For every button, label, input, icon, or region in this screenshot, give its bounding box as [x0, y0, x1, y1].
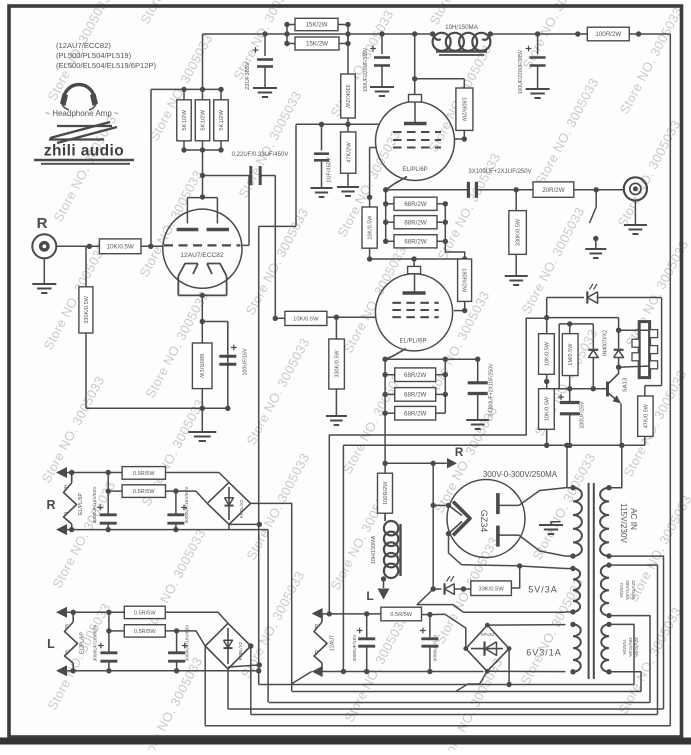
- svg-text:F: F: [64, 513, 68, 519]
- svg-text:(PL500/PL504/PL519): (PL500/PL504/PL519): [56, 51, 132, 60]
- svg-text:10K/0.5W: 10K/0.5W: [544, 341, 550, 366]
- svg-text:68R/2W: 68R/2W: [404, 219, 427, 226]
- svg-text:10K/0.5W: 10K/0.5W: [368, 215, 374, 240]
- svg-text:KPBL/X2: KPBL/X2: [239, 499, 244, 518]
- svg-text:F: F: [65, 625, 69, 631]
- svg-text:3000UF/16V: 3000UF/16V: [352, 634, 358, 662]
- svg-text:22UF385V: 22UF385V: [245, 62, 251, 90]
- svg-text:F: F: [315, 625, 319, 631]
- svg-text:68R/2W: 68R/2W: [404, 239, 427, 246]
- svg-text:3000UF/16V/63V: 3000UF/16V/63V: [184, 486, 190, 524]
- svg-text:68R/2W: 68R/2W: [404, 392, 427, 399]
- svg-text:12AU7: 12AU7: [330, 635, 336, 651]
- svg-text:100UF/220UF/385V: 100UF/220UF/385V: [518, 49, 524, 94]
- svg-text:EL/PL/6P: EL/PL/6P: [402, 167, 427, 173]
- svg-text:330K/0.5W: 330K/0.5W: [84, 295, 90, 323]
- svg-text:3000UF/16V/63V: 3000UF/16V/63V: [92, 486, 98, 524]
- svg-text:100R/2W: 100R/2W: [595, 31, 621, 38]
- svg-text:KPU6J: KPU6J: [481, 632, 494, 637]
- svg-text:15K/2W: 15K/2W: [305, 22, 327, 29]
- svg-text:15K/2W: 15K/2W: [306, 41, 328, 48]
- svg-text:F: F: [65, 651, 69, 657]
- svg-text:680R/1W: 680R/1W: [198, 354, 204, 379]
- svg-text:33K/0.5W: 33K/0.5W: [478, 586, 504, 592]
- svg-text:180R/2W: 180R/2W: [460, 97, 466, 122]
- svg-text:0.5R/5W: 0.5R/5W: [134, 610, 156, 616]
- svg-text:47K/2W: 47K/2W: [346, 142, 352, 163]
- svg-text:180R/2W: 180R/2W: [461, 268, 467, 293]
- svg-text:IN4007//X2: IN4007//X2: [603, 330, 609, 356]
- svg-text:5K1/2W: 5K1/2W: [201, 109, 207, 130]
- svg-text:0.5R/5W: 0.5R/5W: [390, 612, 412, 618]
- svg-text:6V3/1A: 6V3/1A: [526, 648, 562, 658]
- svg-text:L: L: [47, 637, 55, 651]
- svg-text:115V/230V: 115V/230V: [619, 503, 628, 543]
- svg-text:29V/0.8A: 29V/0.8A: [624, 580, 630, 601]
- svg-text:7V5/3A: 7V5/3A: [618, 582, 624, 599]
- svg-text:5V/3A: 5V/3A: [528, 585, 558, 595]
- svg-text:F: F: [64, 486, 68, 492]
- svg-text:20R/2W: 20R/2W: [542, 187, 565, 194]
- svg-text:GZ34: GZ34: [479, 510, 489, 533]
- svg-text:(12AU7/ECC82): (12AU7/ECC82): [56, 41, 111, 50]
- svg-text:EL/PL//6P: EL/PL//6P: [399, 339, 426, 345]
- svg-text:10K/0.5W: 10K/0.5W: [544, 396, 550, 421]
- svg-text:EL/PL/6P: EL/PL/6P: [78, 493, 84, 515]
- svg-text:SA13: SA13: [623, 378, 629, 392]
- svg-text:29V/0.8A: 29V/0.8A: [627, 637, 633, 658]
- svg-text:100UF/25V: 100UF/25V: [580, 401, 586, 429]
- svg-text:330K/0.5W: 330K/0.5W: [516, 218, 522, 246]
- svg-text:1UF/450V: 1UF/450V: [327, 157, 333, 182]
- svg-text:3X100UF+2X1UF/250V: 3X100UF+2X1UF/250V: [489, 363, 495, 416]
- svg-text:3000UF/16V/63V: 3000UF/16V/63V: [185, 624, 191, 662]
- svg-text:L: L: [366, 589, 373, 603]
- svg-text:100R/2W: 100R/2W: [383, 481, 389, 505]
- svg-text:330K/0.5W: 330K/0.5W: [335, 350, 341, 378]
- svg-text:0.5R/5W: 0.5R/5W: [133, 489, 155, 495]
- svg-text:68R/2W: 68R/2W: [404, 201, 427, 208]
- svg-text:10H/150MA: 10H/150MA: [371, 535, 377, 564]
- svg-text:47K/0.5W: 47K/0.5W: [643, 403, 649, 428]
- svg-text:0.5R/5W: 0.5R/5W: [134, 629, 156, 635]
- svg-text:R: R: [46, 498, 55, 512]
- svg-text:68R/2W: 68R/2W: [404, 372, 427, 379]
- svg-text:R: R: [37, 215, 48, 232]
- svg-text:10K/0.5W: 10K/0.5W: [293, 316, 319, 322]
- svg-text:5K1/2W: 5K1/2W: [219, 109, 225, 130]
- svg-text:3000UF/16V: 3000UF/16V: [433, 634, 439, 662]
- svg-text:100UF/220UF/385V: 100UF/220UF/385V: [363, 47, 369, 92]
- svg-text:10K/0.5W: 10K/0.5W: [107, 244, 134, 251]
- svg-text:10H/150MA: 10H/150MA: [445, 24, 479, 31]
- svg-text:F: F: [315, 651, 319, 657]
- svg-text:12AU7/ECC82: 12AU7/ECC82: [180, 252, 224, 259]
- svg-text:0.5R/5W: 0.5R/5W: [133, 471, 155, 477]
- svg-text:300V-0-300V/250MA: 300V-0-300V/250MA: [483, 470, 558, 479]
- svg-text:KPBL/X2: KPBL/X2: [238, 641, 243, 660]
- svg-text:(EL500/EL504/EL519/6P12P): (EL500/EL504/EL519/6P12P): [56, 61, 157, 70]
- svg-text:100UF/16V: 100UF/16V: [243, 348, 249, 376]
- svg-text:R: R: [455, 447, 464, 459]
- svg-text:7V5/3A: 7V5/3A: [621, 639, 627, 656]
- svg-text:5K1/2W: 5K1/2W: [182, 109, 188, 130]
- svg-text:68R/2W: 68R/2W: [404, 410, 427, 417]
- svg-text:zhili audio: zhili audio: [44, 143, 124, 160]
- svg-text:330K/2W: 330K/2W: [344, 84, 350, 108]
- svg-text:3X100UF+2X1UF/250V: 3X100UF+2X1UF/250V: [468, 169, 531, 175]
- svg-text:1M/0.5W: 1M/0.5W: [568, 343, 574, 366]
- svg-text:~ Headphone Amp ~: ~ Headphone Amp ~: [45, 109, 119, 118]
- svg-text:EL/PL/6P: EL/PL/6P: [80, 632, 86, 654]
- svg-text:42V/0.8A: 42V/0.8A: [630, 580, 636, 601]
- svg-text:AC IN: AC IN: [629, 508, 638, 530]
- svg-text:0.22UF/0.33UF/450V: 0.22UF/0.33UF/450V: [232, 152, 289, 158]
- svg-text:3000UF/16V/63V: 3000UF/16V/63V: [93, 624, 99, 662]
